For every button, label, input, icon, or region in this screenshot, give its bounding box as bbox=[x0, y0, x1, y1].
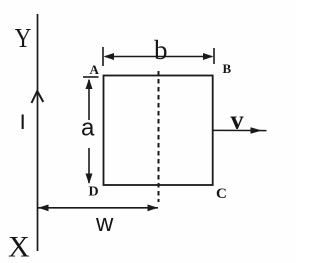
label I bbox=[22, 115, 24, 130]
wire XY bbox=[37, 14, 39, 251]
svg-text:Y: Y bbox=[15, 24, 32, 53]
dimension w line bbox=[38, 207, 158, 209]
dimension b line bbox=[103, 47, 214, 66]
svg-text:w: w bbox=[95, 210, 114, 237]
dimension a line bbox=[83, 77, 99, 183]
svg-text:v: v bbox=[231, 106, 244, 135]
svg-text:b: b bbox=[154, 35, 168, 65]
svg-text:A: A bbox=[90, 62, 100, 77]
svg-text:D: D bbox=[89, 185, 99, 200]
svg-text:C: C bbox=[216, 186, 227, 202]
velocity arrow v bbox=[213, 129, 267, 131]
current arrow on wire bbox=[32, 91, 44, 103]
dashed line bbox=[158, 71, 160, 202]
svg-text:X: X bbox=[8, 231, 30, 263]
svg-text:B: B bbox=[223, 61, 232, 76]
svg-text:a: a bbox=[81, 115, 95, 142]
loop ABCD bbox=[104, 76, 213, 186]
